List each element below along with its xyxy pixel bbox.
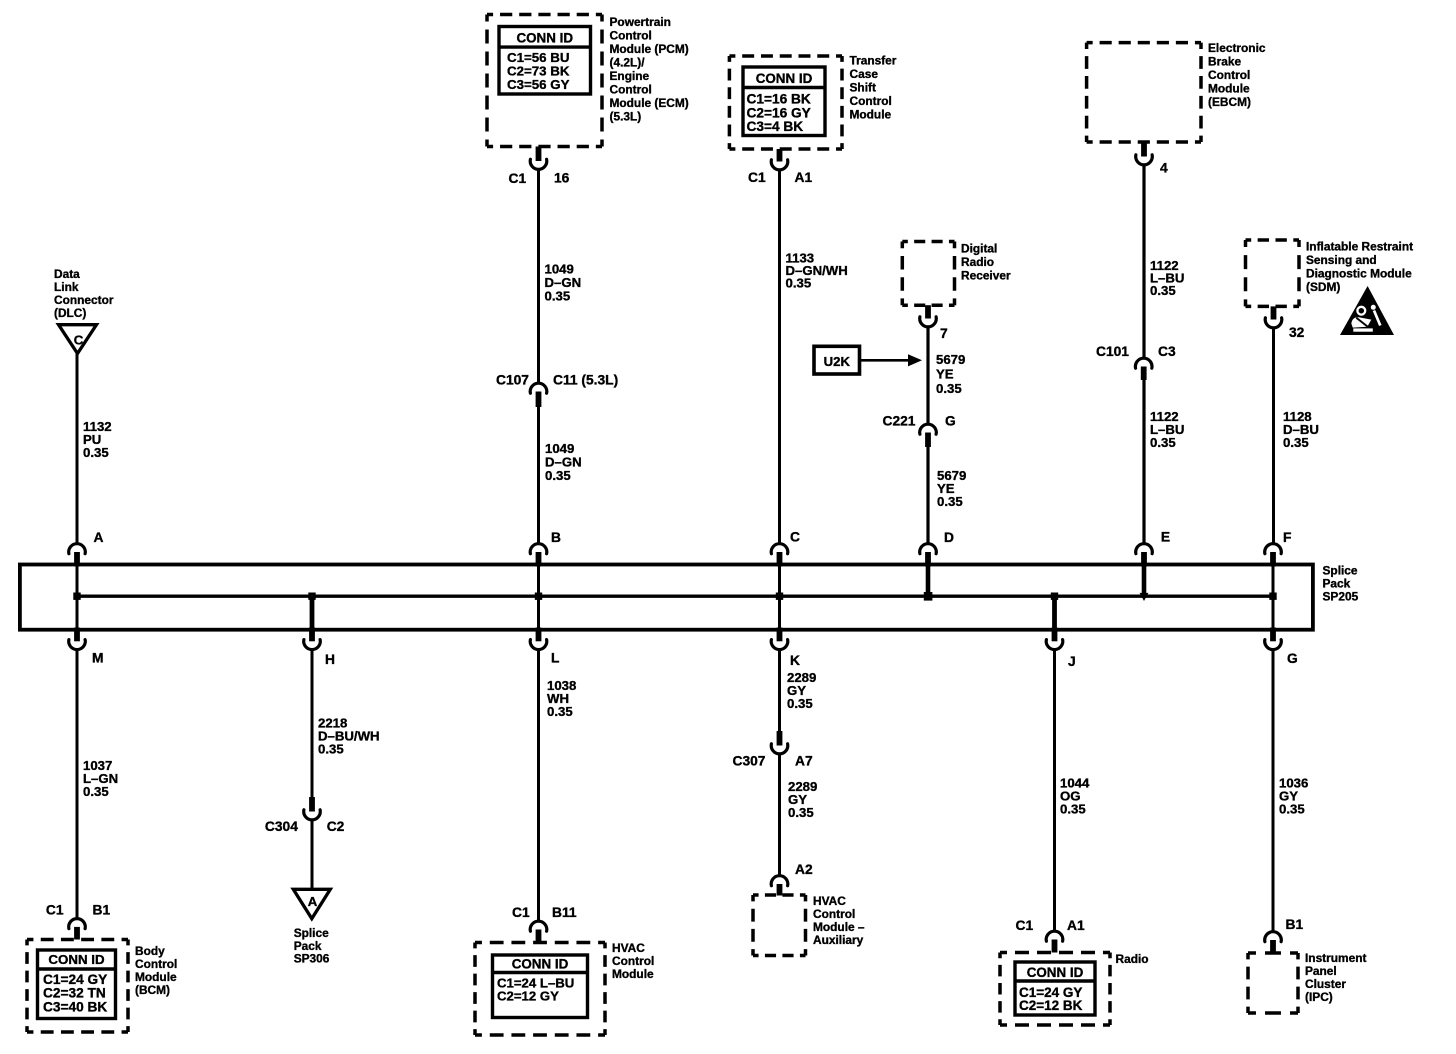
svg-text:CONN ID: CONN ID: [512, 957, 569, 972]
icon airbag warning triangle: [1340, 286, 1394, 335]
svg-text:B1: B1: [93, 903, 111, 918]
label 1132 PU 0.35: [83, 419, 112, 460]
svg-text:0.35: 0.35: [786, 276, 812, 291]
svg-text:5679: 5679: [936, 352, 965, 367]
module EBCM dashed box: [1087, 43, 1201, 142]
svg-text:A: A: [94, 530, 104, 545]
junction dot B: [535, 593, 542, 600]
wire DLC to splice A (1132 PU): [76, 354, 79, 544]
svg-text:Control: Control: [850, 94, 892, 108]
label 1038 WH 0.35: [547, 678, 576, 719]
svg-text:C1: C1: [748, 170, 766, 185]
wire inside splice pack at J: [1052, 596, 1057, 629]
arrow U2K to wire 5679: [860, 354, 923, 366]
splice pack pin A (top): [69, 530, 104, 567]
splice pack pin K (bottom): [771, 628, 800, 669]
junction dot D: [924, 592, 933, 601]
splice pack pin D (top): [920, 530, 954, 567]
svg-text:Module: Module: [1208, 82, 1250, 96]
svg-text:C3=40 BK: C3=40 BK: [43, 999, 107, 1014]
junction dot H: [308, 593, 315, 600]
svg-text:Engine: Engine: [610, 69, 650, 83]
label 1049 D-GN 0.35 lower: [545, 441, 582, 483]
svg-text:YE: YE: [936, 367, 954, 382]
splice pack SP306 triangle: [293, 889, 330, 918]
svg-text:0.35: 0.35: [547, 704, 573, 719]
svg-text:Module (PCM): Module (PCM): [610, 42, 689, 56]
svg-text:Inflatable Restraint: Inflatable Restraint: [1306, 240, 1413, 254]
label 1122 L-BU 0.35 lower: [1150, 409, 1184, 450]
svg-text:(BCM): (BCM): [135, 983, 170, 997]
svg-text:(EBCM): (EBCM): [1208, 95, 1251, 109]
label 5679 YE 0.35 lower: [937, 468, 966, 509]
svg-text:A: A: [308, 894, 318, 909]
svg-text:Body: Body: [135, 944, 165, 958]
label 1044 OG 0.35: [1060, 776, 1090, 817]
svg-text:C2=16 GY: C2=16 GY: [747, 105, 811, 120]
svg-text:Cluster: Cluster: [1305, 977, 1346, 991]
svg-text:0.35: 0.35: [1283, 435, 1309, 450]
splice pack internal bus line: [77, 595, 1273, 598]
svg-text:H: H: [325, 652, 335, 667]
svg-text:C: C: [74, 333, 84, 348]
splice pack SP205 box: [20, 565, 1313, 630]
svg-text:Control: Control: [610, 29, 652, 43]
svg-text:HVAC: HVAC: [813, 894, 846, 908]
connector pin 32 (SDM): [1265, 306, 1304, 340]
svg-text:Connector: Connector: [54, 293, 114, 307]
wire inside splice pack at F/G: [1272, 566, 1275, 628]
svg-text:C101: C101: [1096, 344, 1129, 359]
connector pin 7 (Digital Radio Receiver): [920, 305, 948, 341]
svg-text:K: K: [790, 653, 800, 668]
svg-text:D: D: [944, 530, 954, 545]
svg-text:0.35: 0.35: [1279, 802, 1305, 817]
splice pack pin M (bottom): [69, 628, 104, 666]
label Instrument Panel Cluster (IPC): [1305, 951, 1366, 1004]
svg-text:Auxiliary: Auxiliary: [813, 933, 864, 947]
svg-text:Radio: Radio: [961, 255, 994, 269]
CONN ID table Transfer Case: [743, 67, 825, 136]
label Splice Pack SP205: [1323, 564, 1359, 604]
svg-text:(5.3L): (5.3L): [610, 110, 642, 124]
label Electronic Brake Control Module (EBCM): [1208, 41, 1266, 109]
svg-text:Panel: Panel: [1305, 964, 1337, 978]
svg-text:C304: C304: [265, 819, 298, 834]
svg-text:Electronic: Electronic: [1208, 41, 1266, 55]
module IPC dashed box: [1248, 953, 1298, 1013]
svg-text:A7: A7: [795, 754, 813, 769]
connector C1 pin B11 (HVAC): [512, 905, 577, 943]
svg-text:C2=12 BK: C2=12 BK: [1019, 998, 1083, 1013]
svg-text:U2K: U2K: [824, 354, 851, 369]
module Transfer Case Shift Control dashed box: [729, 56, 842, 149]
wire splice M to BCM (1037 L-GN): [76, 651, 79, 918]
in-line connector C101 / C3: [1096, 344, 1176, 380]
splice pack pin F (top): [1265, 530, 1292, 567]
label HVAC Control Module: [612, 941, 654, 981]
wire splice L to HVAC (1038 WH): [537, 651, 540, 921]
svg-text:C3: C3: [1158, 344, 1176, 359]
module Digital Radio Receiver dashed box: [902, 242, 954, 306]
wire inside splice pack at D: [926, 566, 931, 594]
svg-text:CONN ID: CONN ID: [1027, 965, 1084, 980]
svg-text:0.35: 0.35: [1060, 802, 1086, 817]
svg-text:CONN ID: CONN ID: [516, 31, 573, 46]
wire EBCM to C101 (1122 L-BU): [1142, 166, 1145, 358]
svg-text:(IPC): (IPC): [1305, 990, 1333, 1004]
svg-text:Module (ECM): Module (ECM): [610, 96, 689, 110]
svg-text:C3=56 GY: C3=56 GY: [507, 77, 570, 92]
connector C1 pin A1 (Radio): [1016, 918, 1085, 953]
svg-text:J: J: [1068, 654, 1076, 669]
label 1122 L-BU 0.35 upper: [1150, 258, 1184, 298]
svg-text:Transfer: Transfer: [850, 54, 897, 68]
svg-text:E: E: [1161, 530, 1170, 545]
junction dot J: [1051, 593, 1058, 600]
svg-text:C1: C1: [509, 171, 527, 186]
wire inside splice pack at A/M: [76, 566, 79, 628]
svg-text:C: C: [790, 530, 800, 545]
wire splice J to Radio (1044 OG): [1053, 651, 1056, 931]
svg-text:0.35: 0.35: [788, 805, 814, 820]
svg-text:Splice: Splice: [1323, 564, 1358, 578]
label 2218 D-BU/WH 0.35: [318, 716, 380, 757]
splice pack pin J (bottom): [1046, 628, 1075, 670]
svg-text:0.35: 0.35: [83, 784, 109, 799]
wire C107 to splice B (1049 D-GN): [537, 406, 540, 543]
svg-text:(SDM): (SDM): [1306, 280, 1340, 294]
svg-text:0.35: 0.35: [937, 494, 963, 509]
CONN ID table BCM: [38, 950, 116, 1019]
label Radio: [1116, 952, 1149, 966]
CONN ID table Radio: [1015, 962, 1095, 1015]
svg-text:Pack: Pack: [1323, 577, 1351, 591]
svg-text:32: 32: [1289, 325, 1305, 340]
svg-text:C2: C2: [327, 819, 345, 834]
svg-text:Control: Control: [612, 954, 654, 968]
CONN ID table HVAC: [493, 955, 588, 1018]
svg-text:0.35: 0.35: [545, 468, 571, 483]
svg-text:Brake: Brake: [1208, 55, 1241, 69]
splice pack pin H (bottom): [304, 628, 335, 668]
svg-text:C221: C221: [883, 414, 916, 429]
junction dot A: [73, 593, 80, 600]
svg-text:Link: Link: [54, 280, 79, 294]
label 1128 D-BU 0.35: [1283, 409, 1319, 450]
svg-text:Shift: Shift: [850, 81, 876, 95]
svg-text:Diagnostic Module: Diagnostic Module: [1306, 267, 1412, 281]
svg-text:0.35: 0.35: [83, 445, 109, 460]
svg-text:Data: Data: [54, 267, 80, 281]
svg-text:G: G: [1287, 651, 1298, 666]
splice pack pin E (top): [1136, 530, 1170, 567]
wire inside splice pack at C/K: [778, 566, 781, 628]
svg-text:CONN ID: CONN ID: [48, 952, 105, 967]
svg-text:SP306: SP306: [294, 952, 330, 966]
wire inside splice pack at B/L: [537, 566, 540, 628]
wire inside splice pack at E: [1142, 566, 1147, 593]
wire DRR to C221 (5679 YE): [926, 328, 929, 424]
connector pin B1 (IPC): [1265, 917, 1304, 953]
svg-text:Module: Module: [850, 108, 892, 122]
svg-text:0.35: 0.35: [318, 742, 344, 757]
svg-text:16: 16: [554, 171, 570, 186]
module HVAC Control Module dashed box: [475, 943, 605, 1036]
svg-text:0.35: 0.35: [545, 289, 571, 304]
svg-text:Control: Control: [610, 83, 652, 97]
svg-text:B11: B11: [552, 905, 577, 920]
svg-text:(4.2L)/: (4.2L)/: [610, 56, 646, 70]
svg-text:Module: Module: [612, 967, 654, 981]
wire splice G to IPC (1036 GY): [1272, 651, 1275, 932]
connector C1 pin A1 (Transfer Case): [748, 149, 812, 185]
module HVAC Control Module - Auxiliary dashed box: [753, 895, 806, 956]
svg-text:Module: Module: [135, 970, 177, 984]
splice pack pin G (bottom): [1265, 628, 1298, 667]
junction arrow E: [1140, 593, 1149, 601]
in-line connector C307 / A7: [733, 731, 813, 769]
wire splice K to C307 (2289 GY): [778, 651, 781, 732]
svg-text:4: 4: [1160, 161, 1168, 176]
svg-text:Digital: Digital: [961, 242, 997, 256]
label Digital Radio Receiver: [961, 242, 1011, 283]
svg-text:B: B: [551, 530, 561, 545]
svg-text:HVAC: HVAC: [612, 941, 645, 955]
svg-text:Powertrain: Powertrain: [610, 15, 671, 29]
wire C304 to SP306: [311, 821, 314, 888]
svg-text:Control: Control: [135, 957, 177, 971]
svg-text:CONN ID: CONN ID: [756, 71, 813, 86]
svg-text:C11 (5.3L): C11 (5.3L): [553, 373, 618, 388]
module PCM/ECM dashed box: [487, 15, 602, 147]
svg-text:C107: C107: [496, 373, 529, 388]
splice pack pin L (bottom): [530, 628, 559, 666]
label 2289 GY 0.35 upper: [787, 670, 816, 711]
svg-text:L: L: [551, 651, 559, 666]
svg-text:0.35: 0.35: [936, 381, 962, 396]
svg-text:0.35: 0.35: [1150, 283, 1176, 298]
connector pin A2 (HVAC aux): [771, 862, 813, 896]
svg-text:C2=12 GY: C2=12 GY: [497, 989, 559, 1004]
CONN ID table PCM: [499, 27, 591, 95]
junction dot C: [776, 593, 783, 600]
label HVAC Control Module - Auxiliary: [813, 894, 865, 947]
svg-text:F: F: [1283, 530, 1291, 545]
svg-text:0.35: 0.35: [787, 696, 813, 711]
splice pack pin B (top): [530, 530, 561, 567]
in-line connector C221 / G: [883, 414, 956, 448]
svg-text:Control: Control: [1208, 68, 1250, 82]
svg-text:C1: C1: [512, 905, 530, 920]
svg-text:Case: Case: [850, 67, 879, 81]
junction dot F: [1269, 593, 1276, 600]
label 1049 D-GN 0.35 upper: [545, 262, 582, 304]
svg-text:A2: A2: [795, 862, 813, 877]
svg-text:Instrument: Instrument: [1305, 951, 1366, 965]
label Data Link Connector (DLC): [54, 267, 114, 320]
svg-text:Sensing and: Sensing and: [1306, 253, 1377, 267]
svg-text:(DLC): (DLC): [54, 306, 86, 320]
svg-text:0.35: 0.35: [1150, 435, 1176, 450]
wire C307 to HVAC aux (2289 GY): [778, 755, 781, 876]
label Splice Pack SP306: [294, 926, 330, 966]
svg-text:C1=16 BK: C1=16 BK: [747, 92, 811, 107]
wire splice H to C304 (2218 D-BU/WH): [311, 651, 314, 798]
module Radio dashed box: [1000, 953, 1110, 1026]
connector C1 pin 16 (PCM): [509, 147, 570, 187]
module BCM dashed box: [27, 940, 128, 1033]
label 1036 GY 0.35: [1279, 776, 1308, 817]
module SDM dashed box: [1246, 240, 1300, 306]
wire C221 to splice D (5679 YE): [926, 446, 929, 543]
wire SDM to splice F (1128 D-BU): [1272, 329, 1275, 543]
label 5679 YE 0.35 upper: [936, 352, 965, 396]
svg-text:B1: B1: [1286, 917, 1304, 932]
in-line connector C304 / C2: [265, 797, 345, 834]
label Powertrain Control Module (PCM): [610, 15, 689, 124]
svg-text:7: 7: [940, 326, 948, 341]
label Body Control Module (BCM): [135, 944, 177, 997]
svg-text:A1: A1: [1067, 918, 1085, 933]
connector C1 pin B1 (BCM): [46, 903, 111, 940]
svg-text:G: G: [945, 414, 956, 429]
label 1037 L-GN 0.35: [83, 758, 118, 799]
wire Transfer Case to splice C (1133 D-GN/WH): [778, 171, 781, 543]
connector pin 4 (EBCM): [1136, 142, 1168, 176]
svg-text:Control: Control: [813, 907, 855, 921]
callout U2K box: [814, 346, 860, 374]
svg-text:C1: C1: [46, 903, 64, 918]
svg-text:C307: C307: [733, 754, 766, 769]
label Transfer Case Shift Control Module: [850, 54, 897, 122]
label 2289 GY 0.35 lower: [788, 779, 817, 820]
svg-text:A1: A1: [795, 170, 813, 185]
splice pack pin C (top): [771, 530, 800, 567]
wire C101 to splice E (1122 L-BU): [1142, 379, 1145, 543]
label Inflatable Restraint Sensing and Diagnostic Module (SDM): [1306, 240, 1413, 295]
in-line connector C107 / C11 (5.3L): [496, 373, 618, 408]
svg-text:Module –: Module –: [813, 920, 865, 934]
svg-text:Radio: Radio: [1116, 952, 1149, 966]
svg-text:C3=4 BK: C3=4 BK: [747, 119, 804, 134]
wire PCM to C107 (1049 D-GN): [537, 171, 540, 384]
wire inside splice pack at H: [310, 596, 315, 629]
svg-text:C1: C1: [1016, 918, 1034, 933]
svg-text:Receiver: Receiver: [961, 269, 1011, 283]
svg-text:SP205: SP205: [1323, 590, 1359, 604]
label 1133 D-GN/WH 0.35: [786, 251, 848, 291]
svg-text:M: M: [92, 651, 104, 666]
connector symbol C (DLC triangle): [59, 325, 97, 354]
